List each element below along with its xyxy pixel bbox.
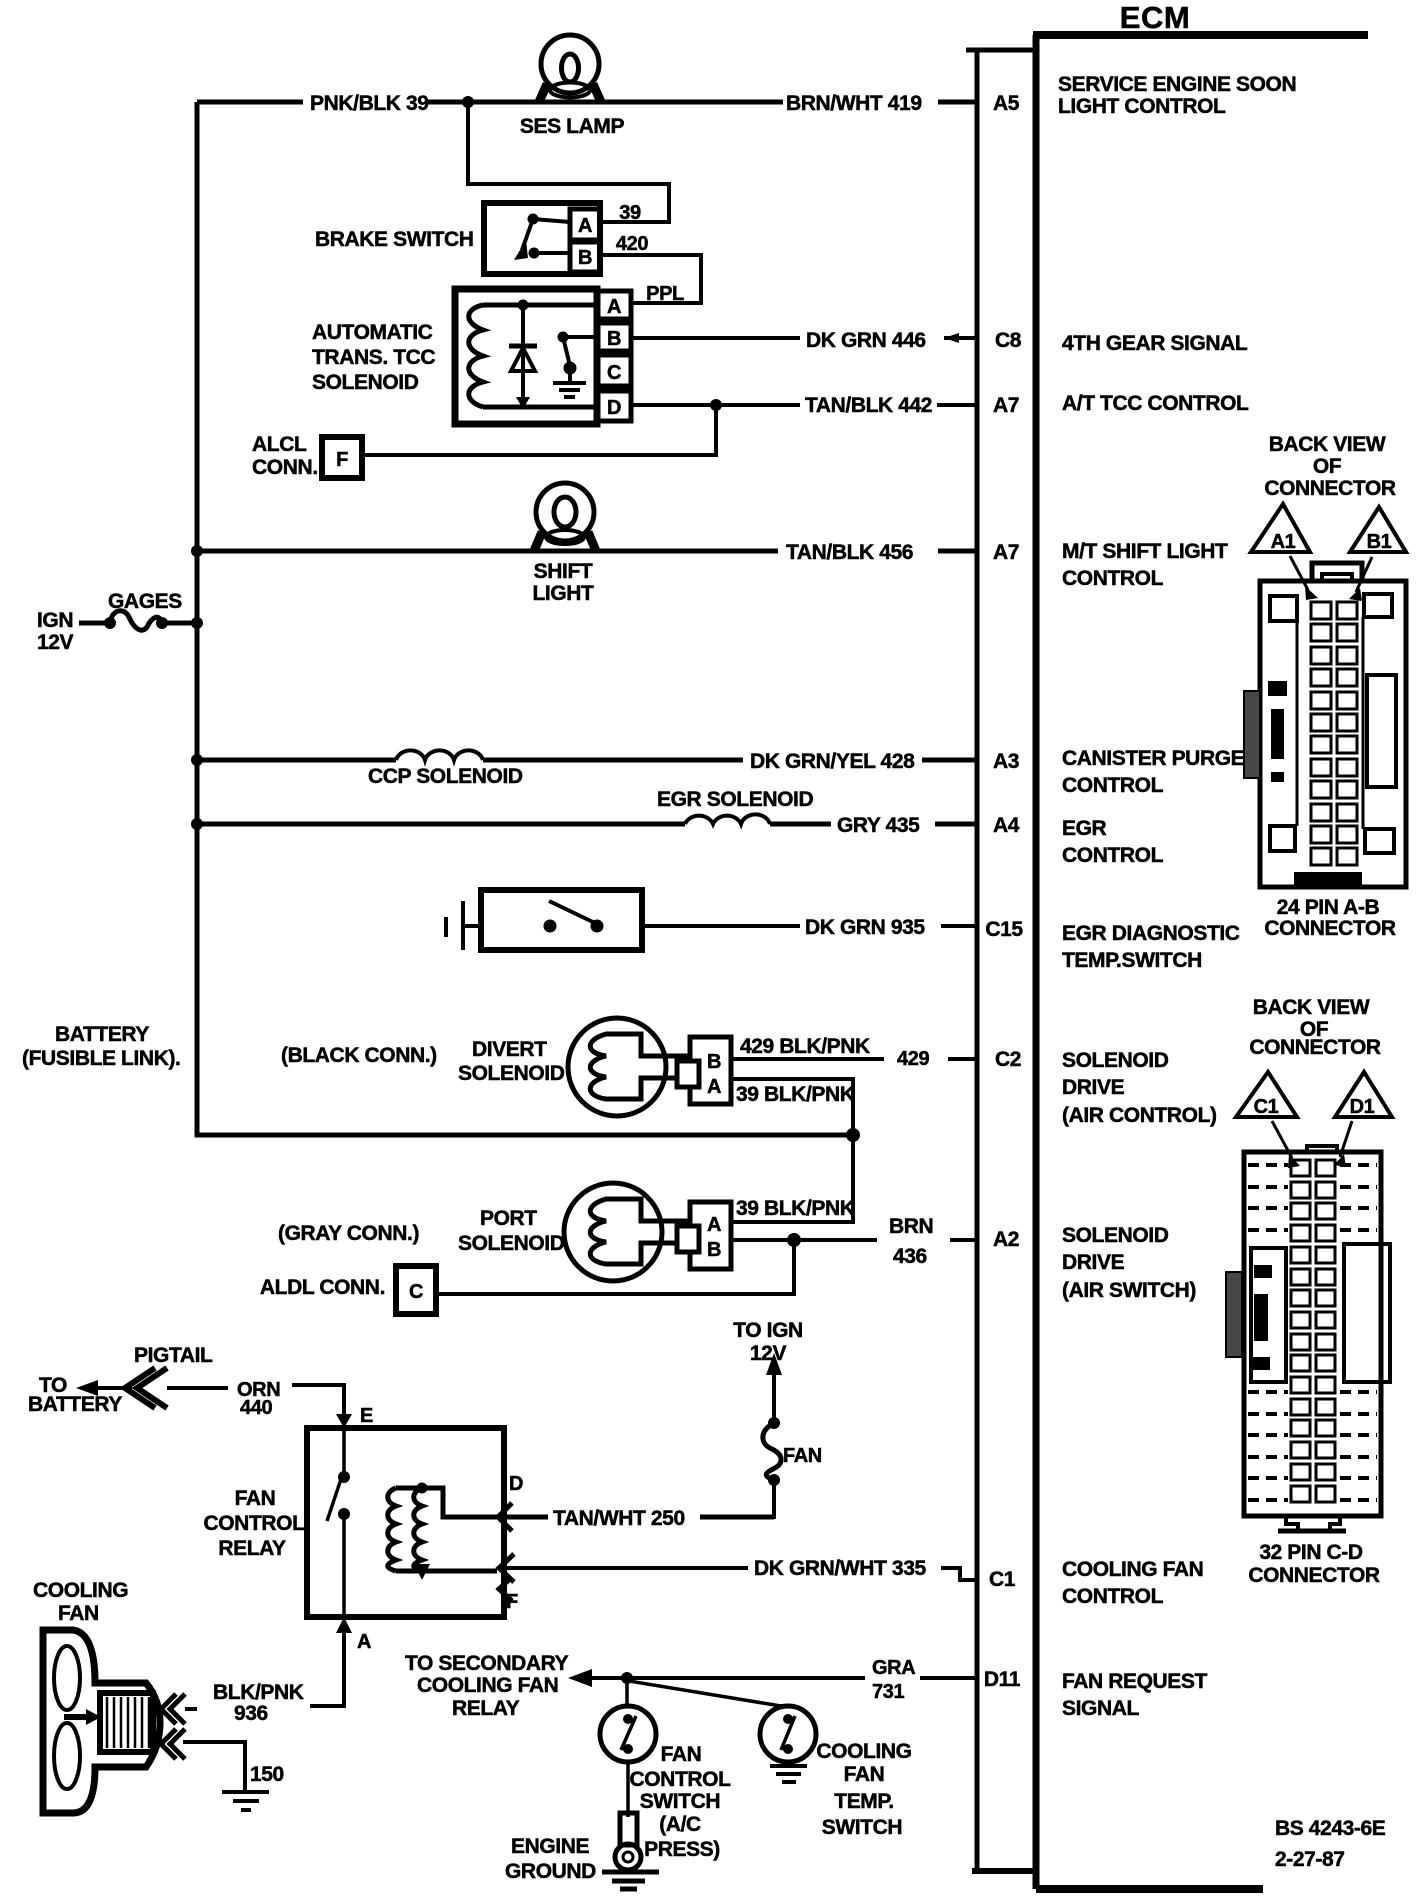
svg-text:A5: A5 — [993, 92, 1020, 115]
svg-text:TAN/BLK 442: TAN/BLK 442 — [805, 394, 932, 417]
svg-text:C1: C1 — [1254, 1096, 1279, 1118]
svg-text:RELAY: RELAY — [452, 1697, 520, 1720]
svg-text:CONTROL: CONTROL — [203, 1512, 305, 1535]
svg-text:936: 936 — [234, 1702, 268, 1725]
svg-text:SES LAMP: SES LAMP — [520, 115, 625, 138]
svg-text:CONTROL: CONTROL — [629, 1768, 731, 1791]
svg-text:150: 150 — [250, 1763, 284, 1786]
svg-text:39: 39 — [619, 202, 641, 224]
svg-text:E: E — [360, 1405, 373, 1427]
svg-text:39 BLK/PNK: 39 BLK/PNK — [736, 1083, 855, 1106]
svg-text:DRIVE: DRIVE — [1062, 1076, 1125, 1099]
svg-text:SOLENOID: SOLENOID — [312, 371, 419, 394]
svg-text:(AIR SWITCH): (AIR SWITCH) — [1062, 1279, 1196, 1302]
svg-text:DRIVE: DRIVE — [1062, 1251, 1125, 1274]
svg-text:PPL: PPL — [646, 283, 684, 305]
svg-text:ECM: ECM — [1120, 0, 1190, 35]
svg-text:FAN: FAN — [783, 1445, 822, 1467]
svg-text:(AIR CONTROL): (AIR CONTROL) — [1062, 1104, 1217, 1127]
svg-text:C8: C8 — [995, 329, 1022, 352]
svg-text:F: F — [336, 449, 348, 471]
svg-text:BLK/PNK: BLK/PNK — [213, 1681, 304, 1704]
svg-text:CCP SOLENOID: CCP SOLENOID — [368, 765, 523, 788]
svg-text:PIGTAIL: PIGTAIL — [134, 1344, 213, 1367]
svg-text:731: 731 — [872, 1681, 904, 1703]
svg-text:12V: 12V — [750, 1342, 787, 1365]
svg-text:LIGHT: LIGHT — [533, 582, 595, 605]
svg-text:FAN: FAN — [844, 1763, 885, 1786]
svg-text:A2: A2 — [993, 1228, 1019, 1251]
svg-text:BACK VIEW: BACK VIEW — [1253, 996, 1370, 1019]
svg-text:ALDL CONN.: ALDL CONN. — [260, 1276, 385, 1299]
svg-text:PRESS): PRESS) — [644, 1838, 720, 1861]
svg-text:CONNECTOR: CONNECTOR — [1249, 1036, 1381, 1059]
svg-text:(GRAY CONN.): (GRAY CONN.) — [278, 1222, 419, 1245]
svg-text:COOLING FAN: COOLING FAN — [1062, 1558, 1203, 1581]
svg-text:39 BLK/PNK: 39 BLK/PNK — [736, 1197, 855, 1220]
svg-text:SWITCH: SWITCH — [640, 1790, 720, 1813]
svg-text:TO SECONDARY: TO SECONDARY — [405, 1652, 569, 1675]
svg-text:ENGINE: ENGINE — [511, 1835, 590, 1858]
svg-text:C: C — [607, 362, 621, 384]
svg-text:CONTROL: CONTROL — [1062, 1585, 1164, 1608]
svg-text:429: 429 — [897, 1048, 929, 1070]
svg-text:A1: A1 — [1271, 531, 1296, 553]
svg-text:EGR DIAGNOSTIC: EGR DIAGNOSTIC — [1062, 922, 1240, 945]
svg-text:SHIFT: SHIFT — [534, 560, 593, 583]
svg-text:TEMP.SWITCH: TEMP.SWITCH — [1062, 949, 1202, 972]
svg-text:BRN: BRN — [889, 1215, 933, 1238]
svg-text:COOLING FAN: COOLING FAN — [417, 1674, 558, 1697]
svg-text:A3: A3 — [993, 750, 1019, 773]
svg-text:CONNECTOR: CONNECTOR — [1264, 917, 1396, 940]
svg-text:SERVICE ENGINE SOON: SERVICE ENGINE SOON — [1058, 73, 1296, 96]
svg-text:A/T TCC CONTROL: A/T TCC CONTROL — [1062, 392, 1249, 415]
svg-text:C: C — [409, 1281, 423, 1303]
svg-text:AUTOMATIC: AUTOMATIC — [312, 321, 433, 344]
svg-text:GAGES: GAGES — [108, 590, 182, 613]
svg-text:LIGHT CONTROL: LIGHT CONTROL — [1058, 95, 1226, 118]
svg-text:TRANS. TCC: TRANS. TCC — [312, 346, 435, 369]
svg-text:4TH GEAR SIGNAL: 4TH GEAR SIGNAL — [1062, 332, 1248, 355]
svg-text:BS 4243-6E: BS 4243-6E — [1275, 1817, 1386, 1840]
svg-text:GRY 435: GRY 435 — [837, 814, 920, 837]
svg-text:IGN: IGN — [37, 609, 73, 632]
svg-text:PORT: PORT — [480, 1207, 537, 1230]
svg-text:CANISTER PURGE: CANISTER PURGE — [1062, 747, 1245, 770]
svg-text:D: D — [509, 1473, 523, 1495]
svg-text:A: A — [578, 215, 592, 237]
svg-text:B1: B1 — [1367, 531, 1392, 553]
svg-text:EGR: EGR — [1062, 817, 1107, 840]
svg-text:C1: C1 — [989, 1568, 1016, 1591]
svg-text:EGR SOLENOID: EGR SOLENOID — [657, 788, 813, 811]
svg-text:A4: A4 — [993, 814, 1020, 837]
svg-text:(FUSIBLE LINK).: (FUSIBLE LINK). — [22, 1047, 180, 1070]
svg-text:FAN: FAN — [235, 1487, 276, 1510]
svg-text:CONTROL: CONTROL — [1062, 774, 1164, 797]
svg-text:TEMP.: TEMP. — [834, 1790, 893, 1813]
svg-text:B: B — [707, 1239, 721, 1261]
svg-text:M/T SHIFT LIGHT: M/T SHIFT LIGHT — [1062, 540, 1228, 563]
svg-text:A: A — [707, 1214, 721, 1236]
svg-text:440: 440 — [240, 1397, 272, 1419]
svg-text:CONTROL: CONTROL — [1062, 844, 1164, 867]
svg-text:A7: A7 — [993, 541, 1019, 564]
svg-text:12V: 12V — [37, 631, 74, 654]
svg-text:FAN REQUEST: FAN REQUEST — [1062, 1670, 1208, 1693]
svg-text:OF: OF — [1313, 455, 1342, 478]
svg-text:B: B — [578, 247, 592, 269]
svg-text:CONN.: CONN. — [252, 456, 318, 479]
svg-text:GRA: GRA — [872, 1657, 915, 1679]
svg-text:C15: C15 — [985, 918, 1023, 941]
svg-text:32 PIN C-D: 32 PIN C-D — [1259, 1541, 1363, 1564]
svg-text:TAN/WHT 250: TAN/WHT 250 — [553, 1507, 685, 1530]
svg-text:D1: D1 — [1350, 1096, 1375, 1118]
svg-text:DK GRN/WHT 335: DK GRN/WHT 335 — [754, 1557, 926, 1580]
svg-text:(A/C: (A/C — [659, 1813, 701, 1836]
svg-text:B: B — [707, 1051, 721, 1073]
svg-text:CONNECTOR: CONNECTOR — [1248, 1564, 1380, 1587]
svg-text:A: A — [357, 1631, 371, 1653]
svg-text:DIVERT: DIVERT — [472, 1038, 547, 1061]
svg-text:BATTERY: BATTERY — [28, 1393, 122, 1416]
svg-text:SWITCH: SWITCH — [822, 1816, 902, 1839]
svg-text:A: A — [607, 296, 621, 318]
svg-text:DK GRN 935: DK GRN 935 — [805, 916, 925, 939]
svg-text:BATTERY: BATTERY — [55, 1023, 149, 1046]
svg-text:DK GRN/YEL 428: DK GRN/YEL 428 — [750, 750, 915, 773]
svg-text:FAN: FAN — [661, 1743, 702, 1766]
svg-text:GROUND: GROUND — [505, 1860, 596, 1883]
svg-text:RELAY: RELAY — [218, 1537, 286, 1560]
svg-text:D: D — [607, 397, 621, 419]
svg-text:TAN/BLK 456: TAN/BLK 456 — [786, 541, 913, 564]
svg-text:CONNECTOR: CONNECTOR — [1264, 477, 1396, 500]
svg-text:SOLENOID: SOLENOID — [458, 1232, 565, 1255]
svg-text:BRAKE SWITCH: BRAKE SWITCH — [315, 228, 474, 251]
svg-text:429 BLK/PNK: 429 BLK/PNK — [740, 1035, 870, 1058]
svg-text:BRN/WHT 419: BRN/WHT 419 — [786, 92, 922, 115]
svg-text:FAN: FAN — [58, 1602, 99, 1625]
svg-text:COOLING: COOLING — [816, 1740, 911, 1763]
svg-text:TO IGN: TO IGN — [733, 1319, 803, 1342]
svg-text:ALCL: ALCL — [252, 433, 307, 456]
svg-text:A: A — [707, 1076, 721, 1098]
svg-text:PNK/BLK 39: PNK/BLK 39 — [310, 92, 429, 115]
svg-text:24 PIN A-B: 24 PIN A-B — [1277, 896, 1380, 919]
svg-text:SIGNAL: SIGNAL — [1062, 1697, 1140, 1720]
svg-text:SOLENOID: SOLENOID — [1062, 1224, 1169, 1247]
svg-text:COOLING: COOLING — [33, 1579, 128, 1602]
svg-text:F: F — [506, 1591, 518, 1613]
svg-text:(BLACK CONN.): (BLACK CONN.) — [281, 1044, 437, 1067]
svg-text:A7: A7 — [993, 394, 1019, 417]
svg-text:BACK VIEW: BACK VIEW — [1269, 433, 1386, 456]
svg-text:SOLENOID: SOLENOID — [458, 1062, 565, 1085]
svg-text:420: 420 — [616, 233, 648, 255]
svg-text:436: 436 — [893, 1245, 927, 1268]
svg-text:2-27-87: 2-27-87 — [1275, 1848, 1345, 1871]
svg-text:B: B — [607, 328, 621, 350]
svg-text:C2: C2 — [995, 1048, 1021, 1071]
svg-text:SOLENOID: SOLENOID — [1062, 1049, 1169, 1072]
svg-text:CONTROL: CONTROL — [1062, 567, 1164, 590]
svg-text:D11: D11 — [984, 1668, 1021, 1691]
svg-text:DK GRN 446: DK GRN 446 — [806, 329, 926, 352]
